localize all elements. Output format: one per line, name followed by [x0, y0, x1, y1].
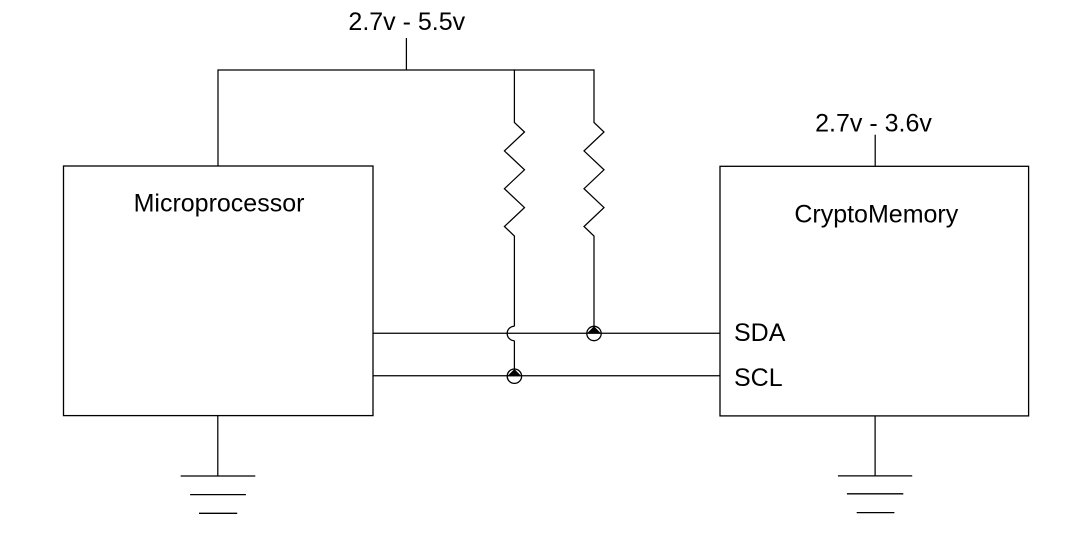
svg-text:2.7v - 3.6v: 2.7v - 3.6v — [815, 109, 932, 137]
block U2 CryptoMemory — [720, 166, 1029, 416]
junction J1: R1 to SCL (circle with filled arrow) — [507, 369, 521, 383]
wire SCL bus — [373, 375, 720, 377]
svg-text:Microprocessor: Microprocessor — [134, 190, 305, 218]
wire power rail — [218, 69, 594, 71]
svg-text:CryptoMemory: CryptoMemory — [794, 200, 958, 228]
wire Microprocessor to ground — [217, 416, 219, 476]
wire from VCC label to power rail — [405, 38, 407, 70]
resistor R1 (SCL pull-up) — [504, 69, 524, 326]
wire R1 lead below hop to SCL junction — [513, 341, 515, 369]
block U1 Microprocessor — [64, 166, 374, 416]
wire SDA bus — [373, 332, 720, 334]
svg-text:SDA: SDA — [734, 319, 786, 347]
junction J2: R2 to SDA (circle with filled arrow) — [587, 326, 601, 340]
wire CryptoMemory to ground — [874, 416, 876, 476]
wire from VCC2 label to CryptoMemory — [874, 135, 876, 167]
wire hop: R1 lead crosses SDA without connection — [507, 326, 514, 341]
wire rail to Microprocessor VCC pin — [217, 69, 219, 166]
resistor R2 (SDA pull-up) — [584, 69, 604, 326]
svg-text:2.7v - 5.5v: 2.7v - 5.5v — [348, 8, 465, 36]
svg-text:SCL: SCL — [734, 364, 783, 392]
ground symbol (Microprocessor) — [181, 476, 256, 513]
ground symbol (CryptoMemory) — [838, 476, 912, 513]
